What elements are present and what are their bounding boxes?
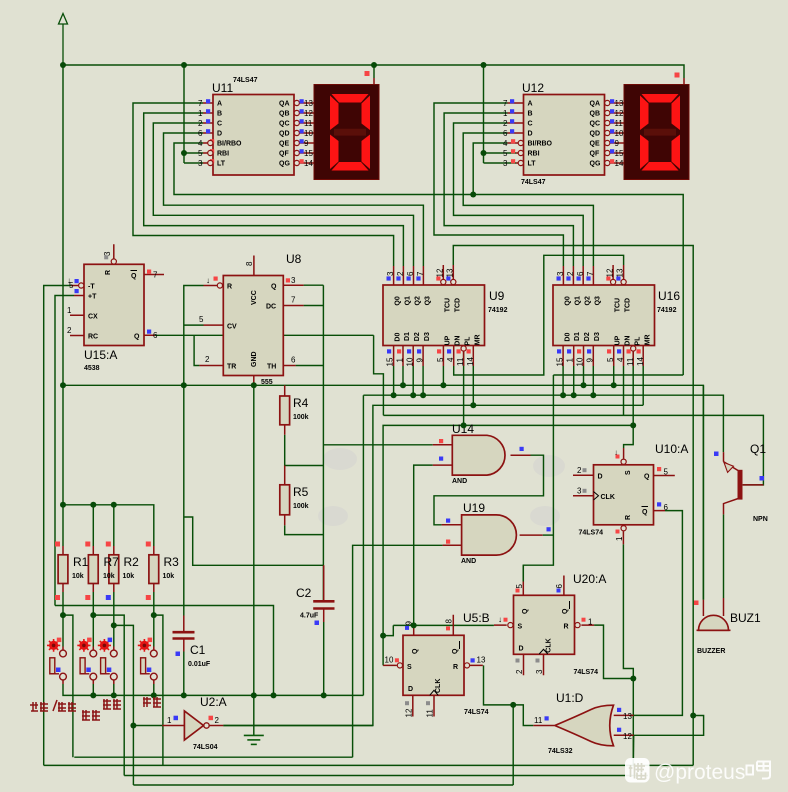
svg-text:R7: R7 bbox=[104, 555, 120, 569]
svg-text:QC: QC bbox=[279, 121, 290, 128]
svg-text:TCU: TCU bbox=[614, 298, 621, 312]
node RBI taps bbox=[181, 150, 187, 156]
svg-text:1: 1 bbox=[396, 358, 405, 363]
wire U15.Q net row y=415.4 to Q1 base bbox=[383, 415, 763, 485]
svg-text:14: 14 bbox=[304, 159, 313, 168]
svg-text:A: A bbox=[528, 101, 533, 108]
resistor R3 bbox=[146, 542, 159, 601]
power terminal arrow bbox=[59, 14, 68, 66]
svg-text:R4: R4 bbox=[293, 396, 309, 410]
svg-text:R1: R1 bbox=[73, 555, 89, 569]
wire resistor VCC rail y=504.8 bbox=[63, 505, 154, 546]
svg-text:Q: Q bbox=[522, 608, 529, 614]
svg-text:AND: AND bbox=[461, 558, 476, 565]
svg-text:5: 5 bbox=[198, 149, 203, 158]
wire net-A row y=385.3 bbox=[63, 385, 703, 600]
svg-text:6: 6 bbox=[153, 331, 158, 340]
svg-text:D2: D2 bbox=[584, 332, 591, 341]
node reset net junctions bbox=[630, 676, 636, 682]
wire ready button node branch bbox=[93, 615, 124, 775]
svg-text:11: 11 bbox=[615, 119, 624, 128]
svg-text:R: R bbox=[227, 284, 232, 291]
watermark text bbox=[654, 761, 770, 784]
wire U2A output to MR net bbox=[223, 725, 373, 727]
op U16 74192 counter body bbox=[553, 268, 680, 366]
svg-text:LT: LT bbox=[528, 161, 537, 168]
wire R1 top bbox=[62, 385, 64, 546]
wire U9.D2 bbox=[412, 366, 414, 395]
svg-text:D: D bbox=[408, 686, 413, 693]
wire U9.UP bbox=[442, 366, 444, 385]
svg-text:14: 14 bbox=[636, 357, 645, 366]
node net-A row bbox=[60, 382, 66, 388]
wire start button node branch bbox=[154, 615, 163, 765]
wire U16.D0 bbox=[562, 366, 564, 395]
U12 left pin stubs bbox=[508, 103, 524, 163]
svg-text:R: R bbox=[564, 624, 569, 631]
wire U11.B from U9.Q1 bbox=[144, 113, 404, 266]
op U10:A 74LS74 flip-flop body bbox=[577, 442, 688, 541]
wire R7 top bbox=[92, 505, 94, 546]
wire +T GND row y=605.5 bbox=[55, 606, 274, 696]
svg-text:3: 3 bbox=[386, 271, 395, 276]
svg-text:12: 12 bbox=[405, 708, 414, 717]
svg-text:3: 3 bbox=[556, 271, 565, 276]
op U12 74LS47 body bbox=[503, 81, 624, 186]
svg-text:2: 2 bbox=[205, 355, 210, 364]
svg-text:2: 2 bbox=[515, 669, 524, 674]
svg-text:13: 13 bbox=[477, 656, 486, 665]
svg-text:A: A bbox=[217, 101, 222, 108]
capacitor C2 bbox=[296, 586, 335, 625]
resistor R2 bbox=[106, 542, 119, 601]
wire C2 bottom bbox=[323, 622, 325, 695]
svg-text:11: 11 bbox=[456, 357, 465, 366]
R3 leads bbox=[153, 546, 155, 592]
svg-text:NPN: NPN bbox=[753, 516, 768, 523]
R1 leads bbox=[62, 546, 64, 592]
buzzer leads bbox=[703, 598, 723, 616]
wire VCC left rail x=63 bbox=[62, 65, 64, 385]
wire U20.R jog bbox=[594, 625, 633, 678]
svg-text:11: 11 bbox=[534, 716, 543, 725]
wire U14.out loop to U19.in1 bbox=[434, 455, 544, 525]
svg-text:4: 4 bbox=[198, 139, 203, 148]
svg-text:7: 7 bbox=[416, 271, 425, 276]
wire U9.D3 bbox=[422, 366, 424, 395]
svg-text:2: 2 bbox=[67, 326, 72, 335]
svg-text:Q: Q bbox=[644, 474, 650, 481]
svg-text:15: 15 bbox=[386, 357, 395, 366]
wire U16.D1 bbox=[573, 366, 575, 395]
op U2:A 74LS04 inverter bbox=[167, 695, 227, 751]
svg-text:74LS74: 74LS74 bbox=[574, 669, 599, 676]
resistor R4 bbox=[280, 396, 309, 425]
svg-text:3: 3 bbox=[577, 487, 582, 496]
svg-text:QB: QB bbox=[590, 111, 601, 118]
svg-text:10k: 10k bbox=[163, 573, 175, 580]
watermark tieba icon bbox=[625, 758, 650, 783]
svg-text:BI/RBO: BI/RBO bbox=[217, 141, 242, 148]
svg-text:QF: QF bbox=[279, 151, 289, 158]
svg-text:74LS47: 74LS47 bbox=[521, 179, 546, 186]
button start bbox=[138, 638, 157, 680]
svg-text:4538: 4538 bbox=[84, 365, 100, 372]
svg-text:1: 1 bbox=[588, 618, 593, 627]
button ready bbox=[77, 638, 96, 680]
svg-text:5: 5 bbox=[503, 149, 508, 158]
svg-text:U10:A: U10:A bbox=[655, 442, 688, 456]
wire stop button node branch bbox=[63, 615, 73, 757]
svg-text:12: 12 bbox=[304, 109, 313, 118]
svg-text:1: 1 bbox=[167, 716, 172, 725]
svg-text:5: 5 bbox=[515, 584, 524, 589]
wire U9.MR bbox=[472, 366, 474, 405]
svg-text:10k: 10k bbox=[72, 573, 84, 580]
svg-text:Q: Q bbox=[271, 284, 277, 291]
U5B pin stubs bbox=[383, 615, 483, 717]
svg-text:0.01uF: 0.01uF bbox=[188, 661, 211, 668]
svg-text:U20:A: U20:A bbox=[573, 572, 606, 586]
wire U9.D1 bbox=[402, 366, 404, 385]
svg-text:10: 10 bbox=[304, 129, 313, 138]
svg-text:D: D bbox=[519, 646, 524, 653]
svg-text:12: 12 bbox=[436, 268, 445, 277]
svg-text:11: 11 bbox=[626, 357, 635, 366]
display1 top pin bbox=[373, 78, 375, 85]
wire 555 to U14.in1 row bbox=[323, 444, 432, 446]
svg-text:D2: D2 bbox=[414, 332, 421, 341]
svg-text:9: 9 bbox=[416, 358, 425, 363]
wire U12 BI/RBO branch bbox=[473, 143, 507, 195]
svg-text:D: D bbox=[528, 131, 533, 138]
wire U19.in2 from stop button bbox=[353, 545, 443, 757]
svg-text:2: 2 bbox=[396, 271, 405, 276]
node resistor rail bbox=[60, 502, 66, 508]
svg-text:BI/RBO: BI/RBO bbox=[528, 141, 553, 148]
svg-text:QD: QD bbox=[590, 131, 601, 138]
wire bottom row start/-T y=765.4 bbox=[44, 764, 694, 766]
svg-text:2: 2 bbox=[215, 716, 220, 725]
svg-text:↓: ↓ bbox=[206, 276, 210, 285]
wire U16.D2 bbox=[583, 366, 585, 385]
wire top VCC bus y=65 bbox=[63, 65, 684, 78]
svg-text:U15:A: U15:A bbox=[84, 348, 117, 362]
svg-text:6: 6 bbox=[503, 129, 508, 138]
svg-text:6: 6 bbox=[664, 503, 669, 512]
svg-text:U2:A: U2:A bbox=[200, 695, 227, 709]
svg-text:2: 2 bbox=[198, 119, 203, 128]
wire U15.+T net bbox=[55, 296, 74, 606]
svg-text:13: 13 bbox=[616, 268, 625, 277]
wire U5B.R to U1.out bbox=[484, 665, 534, 725]
wire U16.D3 bbox=[592, 366, 594, 395]
svg-text:6: 6 bbox=[555, 584, 564, 589]
svg-text:S: S bbox=[518, 624, 523, 631]
op U11 74LS47 body bbox=[198, 77, 313, 175]
node blanking row bbox=[470, 192, 476, 198]
svg-text:RBI: RBI bbox=[217, 151, 229, 158]
wire C1 bottom bbox=[183, 652, 185, 696]
button clear bbox=[98, 638, 117, 680]
svg-text:TH: TH bbox=[267, 364, 276, 371]
svg-text:CLK: CLK bbox=[601, 494, 615, 501]
svg-text:10: 10 bbox=[615, 129, 624, 138]
svg-text:B: B bbox=[217, 111, 222, 118]
svg-text:12: 12 bbox=[623, 732, 632, 741]
svg-text:Q1: Q1 bbox=[404, 296, 411, 305]
svg-text:8: 8 bbox=[445, 619, 454, 624]
svg-text:U12: U12 bbox=[522, 81, 544, 95]
svg-text:R: R bbox=[625, 515, 632, 520]
svg-text:S: S bbox=[625, 470, 632, 475]
svg-text:R: R bbox=[105, 270, 112, 275]
svg-text:Q: Q bbox=[134, 334, 140, 341]
svg-text:@proteus: @proteus bbox=[654, 761, 745, 784]
svg-text:74192: 74192 bbox=[657, 307, 677, 314]
wire U2A input bbox=[133, 725, 162, 727]
wire R3 bottom to node bbox=[153, 592, 155, 647]
svg-text:MR: MR bbox=[644, 334, 651, 345]
R5 leads bbox=[284, 466, 286, 526]
svg-text:DN: DN bbox=[455, 336, 462, 346]
op U20:A 74LS74 flip-flop body bbox=[498, 572, 606, 676]
capacitor C1 bbox=[173, 632, 211, 668]
svg-text:QF: QF bbox=[590, 151, 600, 158]
svg-text:15: 15 bbox=[556, 357, 565, 366]
wire U16.MR bbox=[642, 366, 644, 405]
svg-text:7: 7 bbox=[291, 296, 296, 305]
svg-text:BUZ1: BUZ1 bbox=[730, 611, 761, 625]
svg-text:9: 9 bbox=[615, 139, 620, 148]
wire U8.TR to U15.Q bbox=[194, 335, 199, 365]
svg-text:DC: DC bbox=[266, 304, 276, 311]
svg-text:6: 6 bbox=[198, 129, 203, 138]
wire U12 RBI/LT feed x=483.5 bbox=[484, 65, 517, 163]
svg-text:UP: UP bbox=[444, 335, 451, 345]
U9 top pin stubs bbox=[394, 265, 454, 285]
svg-text:Q: Q bbox=[412, 648, 419, 654]
wire U11.A from U9.Q0 bbox=[133, 103, 394, 266]
node net-B row bbox=[391, 392, 397, 398]
label ready Chinese bbox=[82, 710, 100, 720]
wire U12.A from U16.Q0 bbox=[434, 103, 563, 266]
op U15:A 4538 monostable body bbox=[67, 251, 158, 372]
svg-text:74LS47: 74LS47 bbox=[233, 77, 258, 84]
svg-text:CX: CX bbox=[88, 314, 98, 321]
svg-text:QG: QG bbox=[279, 161, 290, 168]
svg-text:3: 3 bbox=[503, 159, 508, 168]
svg-text:VCC: VCC bbox=[251, 290, 258, 305]
node MR row bbox=[470, 402, 476, 408]
svg-text:13: 13 bbox=[446, 268, 455, 277]
node U5B.Q junction bbox=[411, 622, 417, 628]
wire U8.GND drop bbox=[253, 383, 255, 695]
C2 leads bbox=[323, 565, 325, 622]
label start Chinese bbox=[143, 697, 161, 707]
wire R7 bottom to node bbox=[92, 592, 94, 647]
svg-text:BUZZER: BUZZER bbox=[697, 648, 725, 655]
wire U12.B from U16.Q1 bbox=[444, 113, 573, 266]
svg-text:R: R bbox=[453, 664, 458, 671]
svg-text:1: 1 bbox=[503, 109, 508, 118]
svg-text:3: 3 bbox=[291, 276, 296, 285]
svg-text:QA: QA bbox=[590, 101, 601, 108]
wire button bottoms GND row y=695.4 bbox=[63, 684, 363, 695]
svg-text:2: 2 bbox=[577, 466, 582, 475]
wire U5B.Q jog to load net bbox=[383, 625, 393, 635]
button stop/continue bbox=[47, 638, 66, 680]
svg-text:D3: D3 bbox=[594, 332, 601, 341]
svg-text:CLK: CLK bbox=[546, 638, 553, 652]
U11 right pin stubs to display1 bbox=[299, 103, 314, 163]
svg-text:10k: 10k bbox=[123, 573, 135, 580]
svg-text:QC: QC bbox=[590, 121, 601, 128]
svg-text:R2: R2 bbox=[124, 555, 140, 569]
wire U1.in12 row bbox=[632, 735, 634, 765]
svg-text:LT: LT bbox=[217, 161, 226, 168]
svg-text:Q0: Q0 bbox=[565, 296, 572, 305]
wire clear button node branch bbox=[114, 625, 134, 785]
svg-text:6: 6 bbox=[406, 271, 415, 276]
wire U16.TCD to U9.DN bbox=[454, 255, 624, 375]
svg-text:14: 14 bbox=[615, 159, 624, 168]
svg-text:U9: U9 bbox=[489, 289, 505, 303]
svg-text:6: 6 bbox=[291, 356, 296, 365]
buzzer BUZ1 bbox=[694, 601, 761, 656]
svg-text:U5:B: U5:B bbox=[463, 611, 490, 625]
svg-text:Q: Q bbox=[562, 608, 569, 614]
svg-text:2: 2 bbox=[566, 271, 575, 276]
transistor Q1 NPN bbox=[714, 442, 768, 523]
svg-text:4: 4 bbox=[503, 139, 508, 148]
svg-text:12: 12 bbox=[615, 109, 624, 118]
ghost smudges bbox=[318, 448, 565, 526]
svg-text:QD: QD bbox=[279, 131, 290, 138]
wire U8.R CV net bbox=[184, 286, 204, 616]
button pin stubs bbox=[63, 647, 154, 685]
svg-text:11: 11 bbox=[426, 709, 435, 718]
wire U9.PL to load net bbox=[463, 352, 465, 425]
svg-text:1: 1 bbox=[615, 536, 624, 541]
wire U16.UP bbox=[613, 366, 615, 385]
wire U11 BI/RBO blanking net bbox=[174, 143, 683, 375]
wire U20.Q pin5 bbox=[522, 565, 524, 581]
svg-text:C2: C2 bbox=[296, 586, 312, 600]
U15 pin stubs bbox=[70, 244, 164, 335]
svg-text:U11: U11 bbox=[212, 81, 233, 95]
svg-text:3: 3 bbox=[198, 159, 203, 168]
svg-text:TCD: TCD bbox=[454, 298, 461, 312]
svg-text:74LS74: 74LS74 bbox=[464, 709, 489, 716]
wire reset net drop to bottom row bbox=[512, 705, 514, 785]
svg-text:10: 10 bbox=[576, 357, 585, 366]
svg-text:PL: PL bbox=[465, 336, 472, 346]
svg-text:Q: Q bbox=[131, 273, 137, 280]
svg-text:5: 5 bbox=[664, 468, 669, 477]
svg-text:CLK: CLK bbox=[435, 679, 442, 693]
svg-text:Q: Q bbox=[642, 509, 648, 516]
wire ground lead bbox=[253, 695, 255, 735]
svg-text:7: 7 bbox=[198, 99, 203, 108]
wire bottom row ready y=775.5 bbox=[124, 775, 648, 777]
svg-text:6: 6 bbox=[576, 271, 585, 276]
svg-text:DN: DN bbox=[625, 336, 632, 346]
svg-text:Q1: Q1 bbox=[574, 296, 581, 305]
wire U15.-T net bbox=[44, 286, 71, 766]
ground symbol bbox=[244, 735, 264, 744]
svg-text:Q: Q bbox=[452, 648, 459, 654]
U2A pin stubs bbox=[162, 725, 223, 727]
svg-text:TCD: TCD bbox=[624, 298, 631, 312]
svg-text:100k: 100k bbox=[293, 414, 309, 421]
op U19 AND gate bbox=[446, 501, 551, 565]
wire U15.Q row bbox=[155, 334, 374, 336]
wire U19.out to blanking net bbox=[543, 534, 554, 536]
wire R4 bottom node bbox=[285, 435, 324, 466]
wire U9.TCD elbow to U1 pin12 bbox=[634, 716, 704, 736]
svg-text:10: 10 bbox=[406, 357, 415, 366]
node U1 area junction bbox=[690, 713, 696, 719]
U9 bottom pin stubs bbox=[394, 346, 474, 367]
svg-text:74LS04: 74LS04 bbox=[193, 744, 218, 751]
svg-text:5: 5 bbox=[606, 357, 615, 362]
svg-text:13: 13 bbox=[615, 99, 624, 108]
svg-text:Q1: Q1 bbox=[750, 442, 766, 456]
svg-text:D1: D1 bbox=[574, 332, 581, 341]
svg-text:TR: TR bbox=[227, 364, 236, 371]
U14 pin stubs bbox=[433, 445, 531, 465]
U19 pin stubs bbox=[442, 525, 543, 546]
svg-text:UP: UP bbox=[614, 335, 621, 345]
resistor R1 bbox=[55, 542, 68, 601]
wire U14.in2 from U5B.Q bbox=[414, 465, 433, 625]
wire R2 bottom to node bbox=[113, 592, 115, 647]
svg-text:10: 10 bbox=[385, 656, 394, 665]
display DS1 7-segment bbox=[314, 71, 379, 180]
display2 top pin bbox=[683, 78, 685, 85]
wire R2 top bbox=[113, 505, 115, 546]
node load row bbox=[461, 422, 467, 428]
wire load net row y=425.4 bbox=[383, 425, 633, 665]
wire U11 RBI/LT feed x=184 bbox=[184, 65, 203, 163]
svg-text:GND: GND bbox=[251, 351, 258, 367]
svg-text:C: C bbox=[528, 121, 533, 128]
svg-text:Q2: Q2 bbox=[415, 296, 422, 305]
svg-text:U16: U16 bbox=[658, 289, 680, 303]
svg-text:Q0: Q0 bbox=[395, 296, 402, 305]
svg-text:QA: QA bbox=[279, 101, 290, 108]
svg-text:3: 3 bbox=[535, 669, 544, 674]
svg-text:3: 3 bbox=[103, 251, 112, 256]
svg-text:S: S bbox=[407, 664, 412, 671]
op U8 555 timer body bbox=[199, 252, 302, 386]
svg-text:D: D bbox=[217, 131, 222, 138]
svg-text:10k: 10k bbox=[103, 573, 115, 580]
R2 leads bbox=[113, 546, 115, 592]
wire U11.D from U9.Q3 bbox=[164, 133, 424, 266]
display DS2 7-segment bbox=[624, 73, 689, 180]
svg-text:Q3: Q3 bbox=[424, 296, 431, 305]
svg-text:QE: QE bbox=[279, 141, 289, 148]
op U5:B 74LS74 flip-flop body bbox=[385, 611, 490, 718]
svg-text:100k: 100k bbox=[293, 503, 309, 510]
svg-text:9: 9 bbox=[304, 139, 309, 148]
U12 right pin stubs to display2 bbox=[610, 103, 624, 163]
wire bottom row stop/continue y=757.2 bbox=[74, 756, 352, 758]
svg-text:D1: D1 bbox=[404, 332, 411, 341]
svg-text:U8: U8 bbox=[286, 252, 302, 266]
